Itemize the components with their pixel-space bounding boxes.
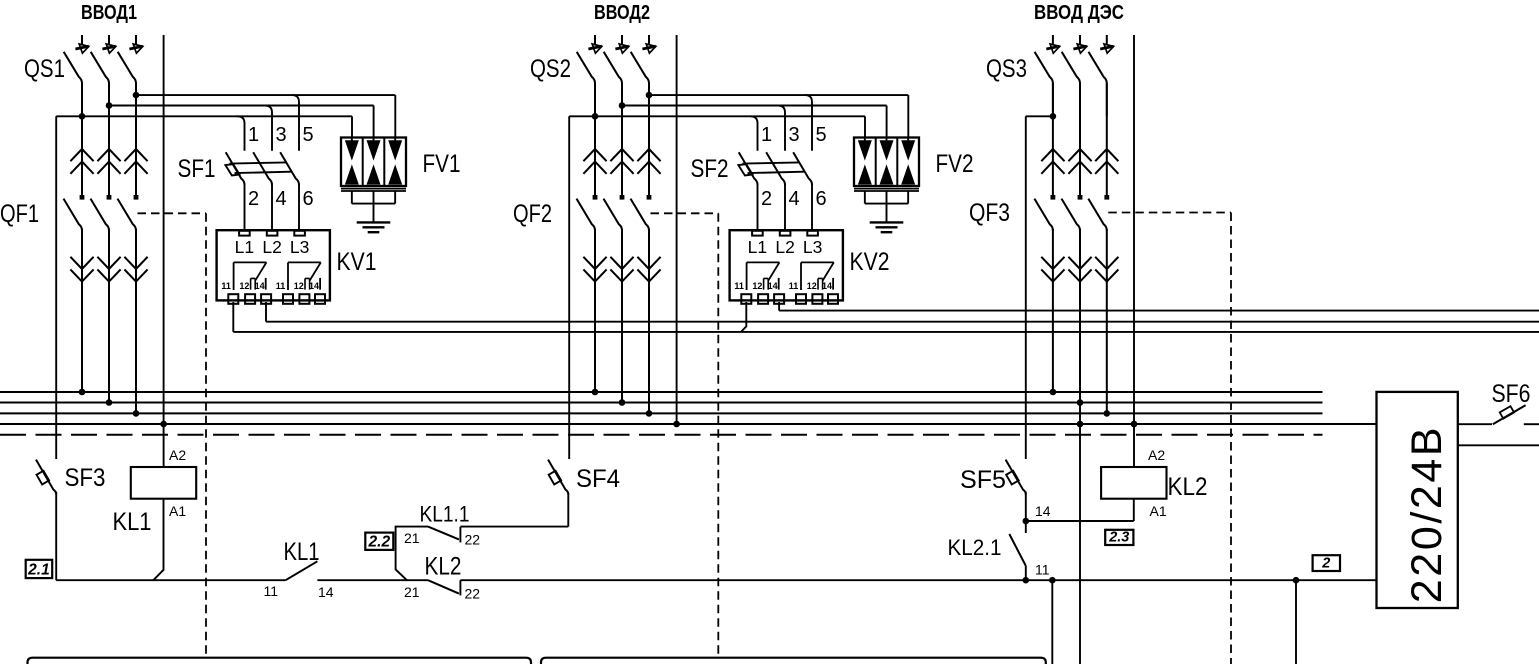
svg-text:14: 14: [822, 281, 832, 291]
node QF3 pole1 to bus1: [1050, 389, 1057, 396]
svg-text:11: 11: [734, 281, 744, 291]
node QF2 pole1 to bus1: [592, 389, 599, 396]
node QF3 pole3 to bus3: [1104, 410, 1111, 417]
wire QS1 pole3 vertical: [135, 83, 137, 95]
circuit breaker QF1 pole 2: [108, 84, 110, 196]
wire SF6 output: [1524, 423, 1539, 425]
svg-text:SF4: SF4: [576, 465, 620, 493]
svg-text:QF1: QF1: [0, 200, 39, 228]
svg-text:QS1: QS1: [24, 55, 65, 83]
wire QS1 pole2 vertical: [108, 83, 110, 106]
disconnector QS1 pole 3 blade: [118, 52, 136, 84]
svg-text:21: 21: [404, 584, 420, 600]
svg-text:3: 3: [789, 124, 800, 146]
disconnector QS1 pole 2 blade: [91, 52, 109, 84]
incoming line arrow 2.2: [621, 35, 623, 45]
svg-text:2: 2: [248, 188, 259, 210]
node QF1 pole1 to bus1: [79, 389, 86, 396]
svg-text:L3: L3: [290, 237, 309, 257]
reference box 2.2: [365, 533, 393, 550]
incoming line arrow 1.3: [135, 35, 137, 45]
wire KL1-14 to KL2-21: [317, 579, 428, 581]
svg-text:A2: A2: [1148, 447, 1165, 463]
bus line 4 (N): [0, 423, 1377, 425]
contact KL2.1 blade: [1009, 534, 1026, 566]
svg-text:ВВОД ДЭС: ВВОД ДЭС: [1034, 1, 1124, 24]
svg-text:4: 4: [789, 188, 800, 210]
wire QS2 pole2 vertical: [621, 83, 623, 106]
power supply 220/24V label: [1403, 425, 1451, 603]
svg-text:KL1: KL1: [284, 538, 320, 566]
svg-text:ВВОД2: ВВОД2: [594, 1, 650, 24]
breaker SF1 lead 3: [265, 106, 272, 151]
svg-text:QF3: QF3: [969, 199, 1010, 227]
wire N line section 1: [163, 35, 165, 467]
interlock dashed link QF1: [138, 212, 207, 214]
node QF2 pole2 to bus2: [619, 399, 626, 406]
breaker SF5: [1006, 460, 1026, 495]
svg-text:ВВОД1: ВВОД1: [81, 1, 137, 24]
wire control drop section 2: [568, 116, 570, 459]
svg-text:A1: A1: [1150, 503, 1167, 519]
svg-text:L1: L1: [748, 237, 767, 257]
wire tap L2 section 2 (y=105): [622, 105, 887, 107]
node SF5/KL2A1/KL2.1: [1023, 518, 1030, 525]
incoming line arrow 3.3: [1106, 35, 1108, 45]
wire KV2 terminal 14 output: [778, 302, 780, 311]
svg-text:5: 5: [303, 124, 314, 146]
svg-text:KL2.1: KL2.1: [948, 535, 1002, 560]
svg-text:14: 14: [1035, 503, 1051, 519]
svg-text:12: 12: [752, 281, 762, 291]
node QS2 pole3 junction: [646, 92, 653, 99]
node QS1 pole1 junction: [79, 113, 86, 120]
svg-text:11: 11: [264, 583, 279, 599]
circuit breaker QF2 pole 3: [648, 84, 650, 196]
disconnector QS2 pole 3 blade: [631, 52, 649, 84]
breaker SF1 pole blades: [226, 152, 245, 185]
svg-text:11: 11: [1035, 562, 1050, 578]
wire control tap 2 down: [1295, 580, 1297, 664]
incoming line arrow 1.1: [81, 35, 83, 45]
breaker SF6 blade: [1493, 405, 1526, 424]
incoming line arrow 3.1: [1052, 35, 1054, 45]
node QS3 pole1 junction: [1050, 113, 1057, 120]
breaker SF2 lead 3: [778, 106, 785, 151]
bus dashed line (PE): [0, 434, 1323, 436]
wire node to KL2 coil A1: [1026, 520, 1134, 522]
node N3 to bus4: [1131, 421, 1138, 428]
svg-text:QS3: QS3: [986, 55, 1027, 83]
wire KV1 terminal 14 output: [265, 302, 267, 322]
svg-text:KV1: KV1: [337, 248, 377, 276]
svg-text:3: 3: [276, 124, 287, 146]
svg-text:2: 2: [761, 188, 772, 210]
breaker SF4: [548, 460, 568, 495]
node control tap 2: [1293, 577, 1300, 584]
relay coil KL2: [1101, 467, 1166, 499]
svg-text:11: 11: [276, 281, 286, 291]
contact KL1 blade: [286, 561, 318, 580]
wire control tap 1 down: [1051, 580, 1053, 664]
svg-text:2.1: 2.1: [27, 562, 50, 579]
svg-text:4: 4: [276, 188, 287, 210]
svg-text:KV2: KV2: [850, 248, 890, 276]
svg-text:14: 14: [255, 281, 265, 291]
breaker SF1 lead 1: [238, 116, 245, 151]
wire SF5 to node: [1025, 492, 1027, 521]
breaker SF6 release: [1500, 406, 1514, 418]
wire KL1 coil bottom jog: [153, 499, 163, 581]
breaker SF2 lead 5: [805, 95, 812, 151]
wire tap L2 section 1 (y=105): [109, 105, 374, 107]
svg-text:22: 22: [465, 532, 481, 548]
wire control bus right: [1026, 579, 1377, 581]
contact KL1.1 blade NC: [428, 527, 459, 540]
svg-text:A1: A1: [169, 503, 186, 519]
reference box 2: [1313, 555, 1340, 571]
svg-text:FV2: FV2: [936, 150, 974, 178]
svg-text:1: 1: [761, 124, 772, 146]
svg-text:SF2: SF2: [691, 155, 729, 183]
wire KL1.1-22 to SF4: [460, 526, 568, 528]
svg-text:FV1: FV1: [423, 150, 461, 178]
node QS1 pole3 junction: [133, 92, 140, 99]
svg-text:QS2: QS2: [530, 55, 571, 83]
disconnector QS3 pole 1 blade: [1035, 52, 1053, 84]
svg-text:11: 11: [221, 281, 231, 291]
disconnector QS2 pole 1 blade: [577, 52, 595, 84]
svg-text:L2: L2: [262, 237, 281, 257]
power supply 220/24V box: [1377, 392, 1458, 608]
interlock dashed link QF3: [1108, 212, 1231, 214]
unit box B (cut off): [541, 658, 1046, 664]
disconnector QS3 pole 3 blade: [1089, 52, 1107, 84]
wire tap L3 section 2 (y=95): [649, 94, 908, 96]
wire N line section 3: [1133, 35, 1135, 467]
wire QS3 pole3 vertical: [1106, 83, 1108, 95]
svg-text:1: 1: [248, 124, 259, 146]
svg-text:14: 14: [768, 281, 778, 291]
node QF3 pole2 to bus4: [1077, 421, 1084, 428]
incoming line arrow 3.2: [1079, 35, 1081, 45]
svg-text:12: 12: [239, 281, 249, 291]
circuit breaker QF1 pole 3: [135, 84, 137, 196]
breaker SF2 pole blades: [739, 152, 758, 185]
svg-text:QF2: QF2: [513, 200, 552, 228]
svg-text:KL2: KL2: [1168, 473, 1208, 501]
svg-text:5: 5: [816, 124, 827, 146]
svg-text:14: 14: [309, 281, 319, 291]
svg-text:SF6: SF6: [1492, 380, 1531, 408]
svg-text:A2: A2: [169, 447, 186, 463]
wire QS3 pole2 vertical: [1079, 83, 1081, 106]
node QF1 pole3 to bus3: [133, 410, 140, 417]
circuit breaker QF3 pole 1: [1052, 84, 1054, 196]
circuit breaker QF1 pole 1: [81, 84, 83, 196]
circuit breaker QF3 pole 3: [1106, 84, 1108, 196]
svg-text:14: 14: [318, 584, 334, 600]
node QS2 pole2 junction: [619, 102, 626, 109]
incoming line arrow 2.3: [648, 35, 650, 45]
svg-text:2.2: 2.2: [368, 533, 391, 550]
svg-text:SF3: SF3: [65, 464, 106, 492]
wire tap L1 section 1 (y=116): [56, 115, 352, 117]
svg-text:6: 6: [816, 188, 827, 210]
node N1 to bus4: [160, 421, 167, 428]
wire tap L3 section 1 (y=95): [136, 94, 395, 96]
node QF3 pole2 to bus2: [1077, 399, 1084, 406]
wire KV1 terminal 11 output: [232, 302, 234, 332]
interlock dashed link QF2: [651, 212, 719, 214]
svg-text:L1: L1: [235, 237, 254, 257]
svg-text:KL1: KL1: [113, 508, 152, 536]
wire control bus middle: [460, 579, 1025, 581]
node KL2.1 on control bus: [1023, 577, 1030, 584]
svg-text:22: 22: [465, 586, 481, 602]
svg-text:KL1.1: KL1.1: [420, 502, 470, 527]
disconnector QS3 pole 2 blade: [1062, 52, 1080, 84]
wire box to SF6: [1458, 423, 1492, 425]
svg-text:L2: L2: [775, 237, 794, 257]
breaker SF2 lead 1: [751, 116, 758, 151]
surge arrester FV1: [341, 138, 406, 187]
relay coil KL1: [131, 467, 196, 499]
svg-text:11: 11: [789, 281, 799, 291]
contact KL2.1 upper lead: [1025, 521, 1027, 533]
node N2 to bus4: [673, 421, 680, 428]
breaker SF2 linkage bar: [743, 162, 801, 163]
disconnector QS1 pole 1 blade: [64, 52, 82, 84]
unit box A (cut off): [28, 658, 532, 664]
bus line 1 (L1): [0, 391, 1323, 393]
breaker SF1 linkage bar: [230, 162, 288, 163]
wire control drop section 1: [55, 116, 57, 459]
svg-text:KL2: KL2: [425, 553, 462, 581]
node QS2 pole1 junction: [592, 113, 599, 120]
reference box 2.1: [26, 560, 53, 578]
svg-text:SF5: SF5: [960, 466, 1006, 494]
circuit breaker QF2 pole 2: [621, 84, 623, 196]
disconnector QS2 pole 2 blade: [604, 52, 622, 84]
node control tap 1: [1049, 577, 1056, 584]
voltage relay KV1 box: [217, 230, 330, 300]
incoming line arrow 1.2: [108, 35, 110, 45]
node QS1 pole2 junction: [106, 102, 113, 109]
svg-text:2.3: 2.3: [1108, 529, 1129, 545]
wire QS1 pole1 vertical: [81, 83, 83, 116]
voltage relay KV2 box: [730, 230, 843, 300]
wire KV2 terminal 11 output join: [741, 302, 746, 332]
wire QS2 pole1 vertical: [594, 83, 596, 116]
svg-text:21: 21: [404, 530, 420, 546]
node QF1 pole2 to bus2: [106, 399, 113, 406]
contact KL2 blade NC: [428, 580, 459, 593]
bus line 3 (L3): [0, 412, 1323, 414]
breaker SF1 lead 5: [292, 95, 299, 151]
breaker SF3: [36, 460, 56, 495]
svg-text:SF1: SF1: [178, 155, 216, 183]
svg-text:L3: L3: [803, 237, 822, 257]
wire 24V output 2: [1458, 444, 1539, 446]
bus line 2 (L2): [0, 402, 1323, 404]
surge arrester FV2: [854, 138, 919, 187]
svg-text:12: 12: [807, 281, 817, 291]
wire branch to KL1.1: [396, 527, 428, 581]
svg-text:2: 2: [1321, 555, 1330, 571]
wire N line section 2: [676, 35, 678, 424]
wire QS2 pole3 vertical: [648, 83, 650, 95]
svg-text:12: 12: [294, 281, 304, 291]
wire QS3 pole1 vertical: [1052, 83, 1054, 116]
circuit breaker QF3 pole 2: [1079, 84, 1081, 196]
wire control drop section 3: [1025, 116, 1027, 459]
wire SF3 to control bus: [55, 492, 57, 581]
svg-text:6: 6: [303, 188, 314, 210]
wire KL2.1 to control bus: [1025, 566, 1027, 580]
svg-text:220/24В: 220/24В: [1403, 425, 1451, 603]
wire tap L1 section 2 (y=116): [569, 115, 865, 117]
node QF2 pole3 to bus3: [646, 410, 653, 417]
circuit breaker QF2 pole 1: [594, 84, 596, 196]
incoming line arrow 2.1: [594, 35, 596, 45]
reference box 2.3: [1105, 530, 1133, 545]
wire tap control section 3 (y=116): [1026, 115, 1053, 117]
